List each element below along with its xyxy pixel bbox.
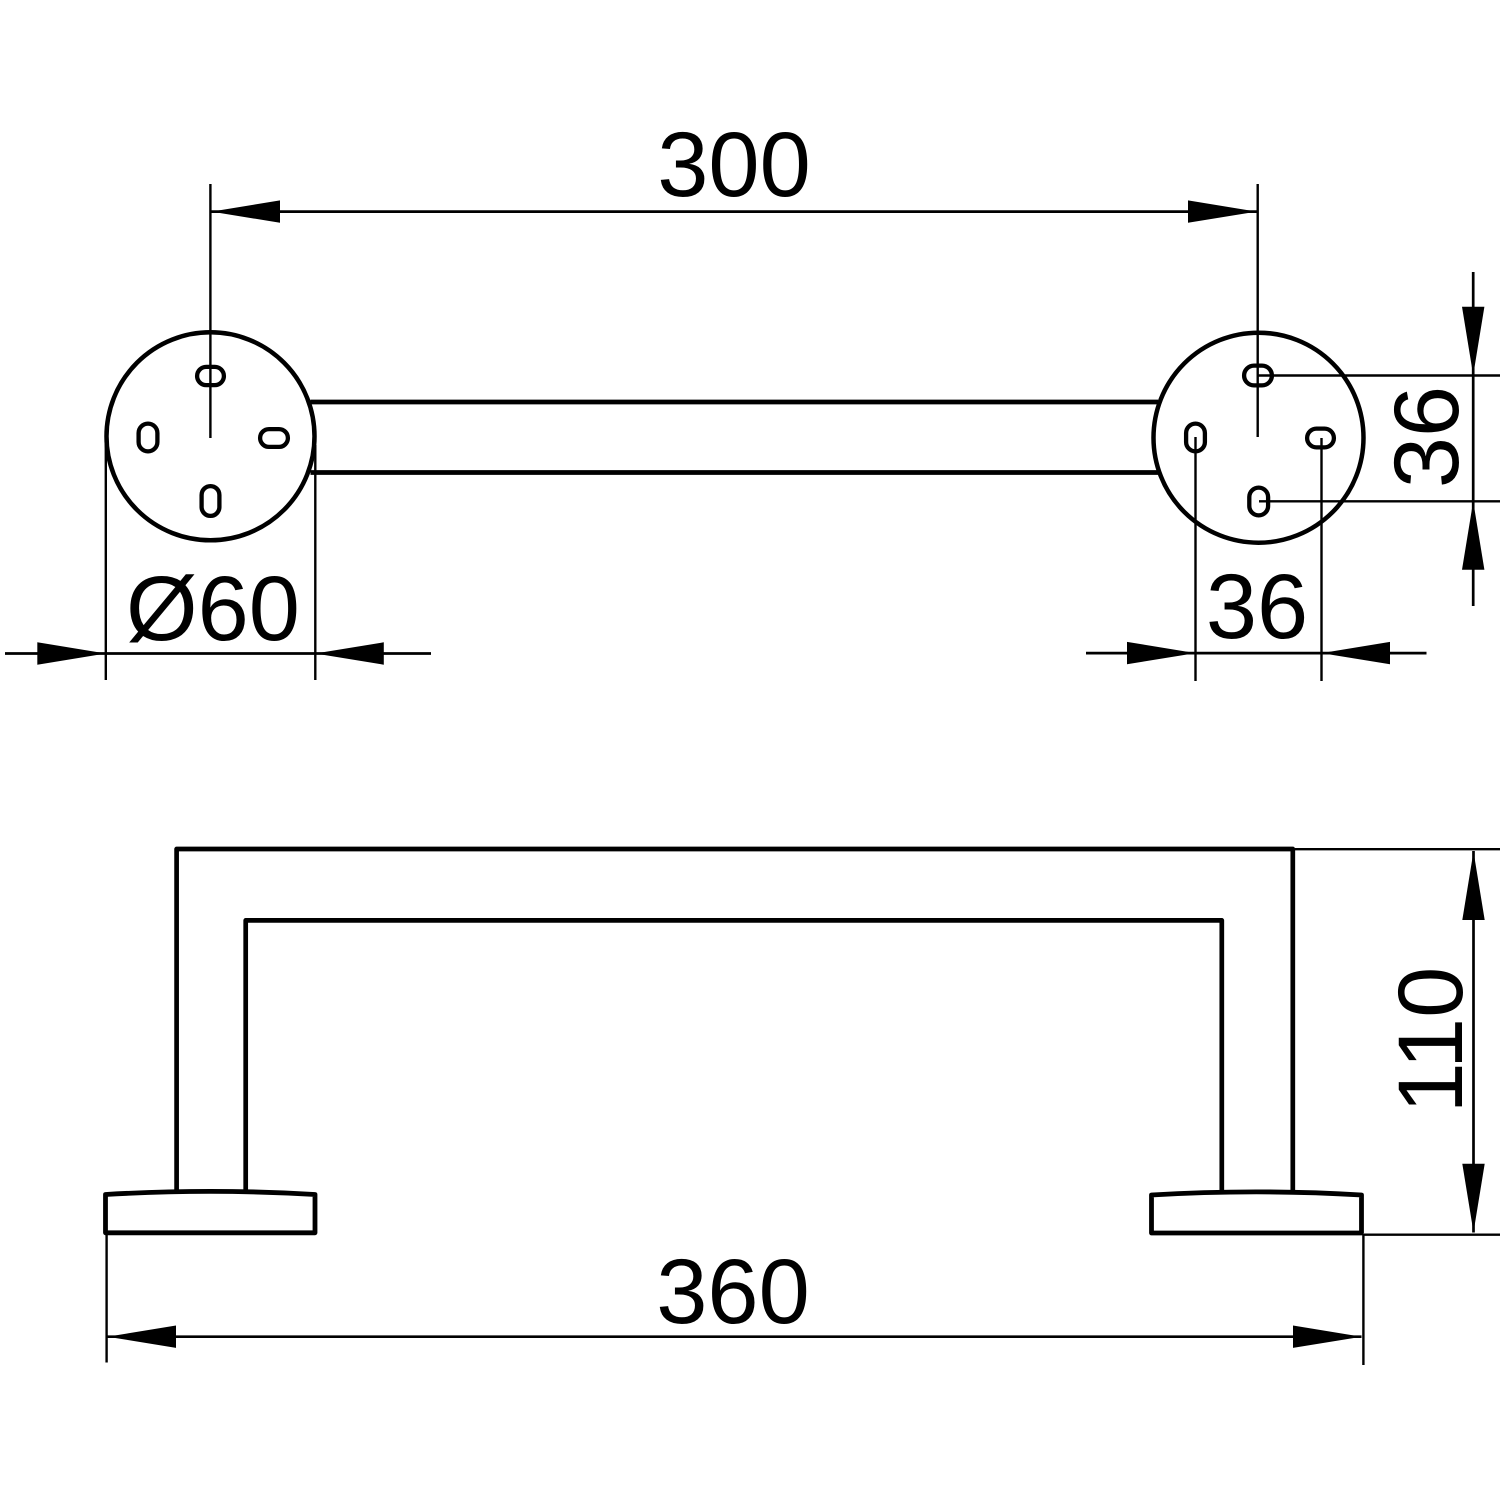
left plate slot top (197, 367, 224, 385)
center line right plate (1256, 184, 1258, 437)
dim 110 line (1472, 851, 1475, 1233)
base left (front view) (106, 1191, 316, 1232)
svg-text:36: 36 (1206, 556, 1308, 658)
36 vert ext line bottom (from right plate bottom slot) (1259, 500, 1500, 502)
dim 110 arrow bottom (1462, 1164, 1484, 1233)
dim 36 bottom arrow right (1322, 642, 1391, 664)
left plate slot bottom (202, 486, 220, 516)
dim 360 line (108, 1335, 1362, 1338)
wall plate left (top view circle) (107, 332, 315, 540)
dim 36 vert line (1472, 272, 1475, 606)
dim 36 bottom line (1086, 652, 1427, 655)
360 ext line right (1362, 1234, 1364, 1365)
left plate slot right (260, 429, 288, 447)
wall plate right (top view circle) (1154, 333, 1364, 543)
dim 360 arrow right (1293, 1326, 1362, 1348)
svg-text:Ø60: Ø60 (126, 558, 300, 660)
right plate slot left (1186, 424, 1205, 452)
dim 360 arrow left (108, 1326, 177, 1348)
right plate slot right (1307, 429, 1334, 448)
bar top edge (top view) (311, 400, 1159, 405)
dia60 ext line right (314, 445, 316, 680)
36 vert ext line top (from right plate top slot) (1258, 374, 1500, 376)
360 ext line left (105, 1234, 107, 1363)
dim 36 vert arrow bottom (1462, 501, 1484, 570)
dim dia60 arrow right (315, 642, 384, 664)
110 ext line bottom (1364, 1233, 1500, 1235)
base right (front view) (1152, 1192, 1362, 1233)
36 ext line left (below right plate) (1194, 437, 1196, 681)
dia60 ext line left (105, 438, 107, 680)
svg-text:360: 360 (656, 1241, 810, 1343)
left plate slot left (139, 424, 158, 452)
110 ext line top (1295, 848, 1500, 850)
dim 36 bottom arrow left (1127, 642, 1196, 664)
dim 110 arrow top (1462, 852, 1484, 921)
center line left plate (209, 184, 211, 438)
right plate slot top (1244, 366, 1272, 386)
dim 36 vert arrow top (1462, 307, 1484, 376)
dim 300 arrow left (212, 200, 281, 222)
right plate slot bottom (1249, 488, 1268, 516)
svg-text:110: 110 (1380, 967, 1482, 1114)
dim dia60 arrow left (37, 642, 106, 664)
svg-text:36: 36 (1376, 386, 1478, 488)
bar outline outer (front view) (177, 849, 1293, 1194)
bar outline inner (front view) (246, 920, 1222, 1193)
svg-text:300: 300 (657, 114, 811, 216)
bar bottom edge (top view) (311, 470, 1159, 475)
dim dia60 line (5, 652, 431, 655)
36 ext line right (below right plate) (1320, 438, 1322, 681)
dim 300 arrow right (1188, 200, 1257, 222)
dim 300 line (212, 210, 1257, 213)
